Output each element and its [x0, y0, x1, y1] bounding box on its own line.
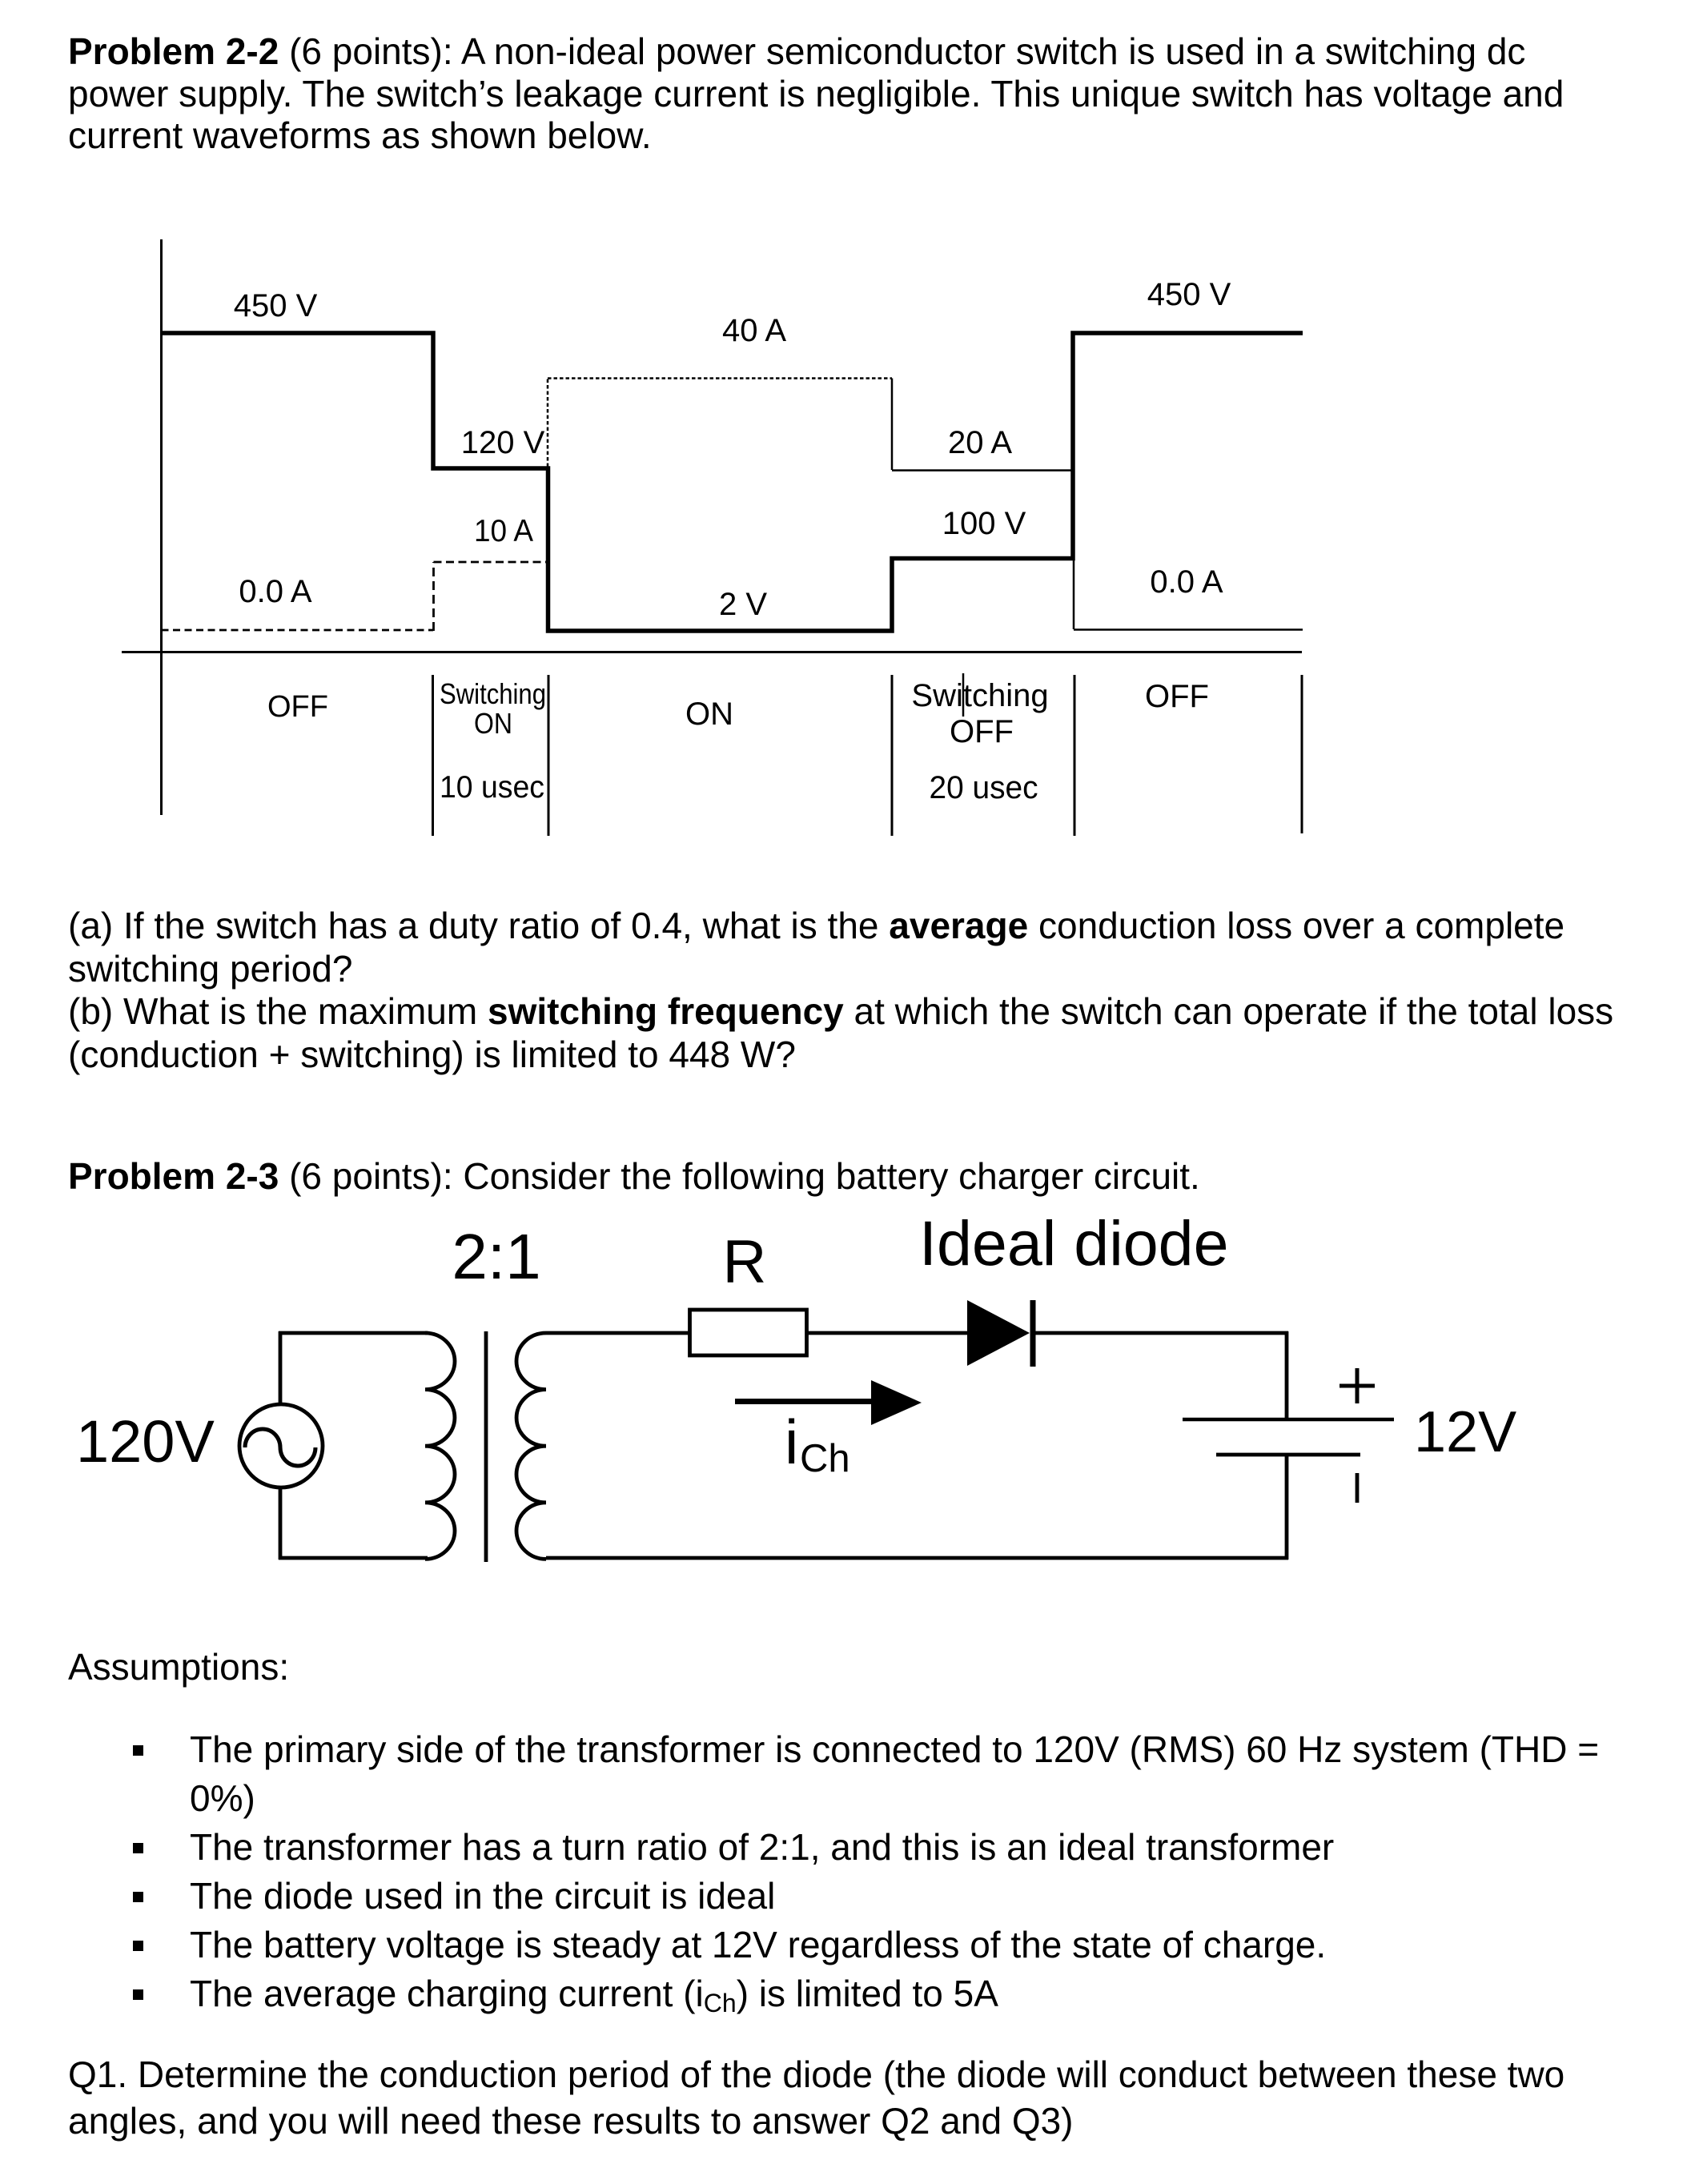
battery plate top: [1183, 1418, 1394, 1422]
svg-text:12V: 12V: [1414, 1400, 1516, 1464]
current arrow iCh shaft: [735, 1399, 877, 1404]
svg-text:R: R: [723, 1228, 767, 1296]
svg-text:Ch: Ch: [800, 1437, 850, 1480]
transformer secondary winding: [516, 1333, 546, 1559]
battery plus sign: [1340, 1384, 1375, 1388]
current 20A solid segment: [892, 469, 1074, 472]
current 0A dashed segment left: [162, 629, 434, 632]
wire primary top: [279, 1331, 428, 1335]
svg-text:2:1: 2:1: [452, 1221, 540, 1292]
y-axis: [160, 239, 163, 815]
wire secondary top left: [546, 1331, 689, 1335]
voltage waveform thick: [162, 333, 1303, 631]
svg-text:i: i: [785, 1407, 798, 1477]
paragraph: Problem 2-3 heading: [68, 1158, 1200, 1194]
Q1: [68, 2056, 1564, 2093]
current fall 40 to 20A solid: [891, 379, 894, 471]
svg-text:Ideal diode: Ideal diode: [919, 1207, 1229, 1279]
svg-text:120V: 120V: [76, 1408, 215, 1475]
separator below axis 2: [548, 675, 550, 836]
wire diode to corner: [1034, 1331, 1288, 1335]
current rise 10 to 40A dashed: [547, 378, 549, 563]
separator below axis 4: [1074, 675, 1076, 836]
bullet 1: [133, 1745, 143, 1756]
ac sine symbol: [245, 1429, 315, 1466]
Assumptions heading: [68, 1648, 289, 1685]
paragraph: Problem 2-2 intro: [68, 33, 1525, 70]
transformer core: [484, 1331, 488, 1562]
question (a)/(b): [68, 907, 1564, 944]
wire right vertical lower: [1285, 1455, 1289, 1560]
current rise 0 to 10A dashed: [432, 562, 435, 631]
separator below axis 5: [1301, 675, 1303, 833]
wire right vertical upper: [1285, 1331, 1289, 1419]
separator below axis 1: [432, 675, 434, 836]
current 0A solid segment right: [1074, 628, 1303, 631]
wire resistor to diode: [806, 1331, 969, 1335]
wire secondary bottom: [546, 1556, 1288, 1560]
wire primary left lower: [279, 1487, 283, 1560]
bullet 4: [133, 1941, 143, 1951]
bullet 2: [133, 1843, 143, 1853]
diode D1: [967, 1300, 1030, 1366]
separator below axis 3: [891, 675, 894, 836]
bullet 5: [133, 1989, 143, 2000]
current 10A dashed segment: [434, 561, 548, 564]
x-axis: [122, 651, 1302, 653]
battery minus bar: [1356, 1473, 1360, 1503]
bullet 3: [133, 1892, 143, 1902]
current arrow head: [871, 1380, 922, 1425]
ac source V1: [239, 1404, 323, 1487]
wire primary bottom: [279, 1556, 428, 1560]
wire primary left upper: [279, 1331, 283, 1405]
current fall 20 to 0A solid: [1073, 471, 1075, 630]
diode cathode bar: [1030, 1300, 1036, 1367]
battery plate bottom: [1216, 1453, 1360, 1457]
resistor R: [690, 1310, 807, 1355]
current 40A dashed segment: [548, 377, 892, 379]
transformer primary winding: [425, 1333, 455, 1559]
stray tick through Switching label: [962, 673, 965, 717]
